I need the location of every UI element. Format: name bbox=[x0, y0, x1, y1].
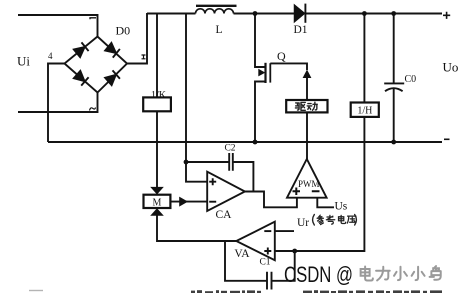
wire C2 right to CA output bbox=[233, 162, 254, 192]
wire Ui top input to bridge top bbox=[18, 15, 98, 37]
op-amp CA triangle bbox=[207, 172, 245, 211]
bridge diodes D0 bbox=[73, 42, 120, 85]
svg-text:C0: C0 bbox=[405, 74, 417, 85]
comparator PWM triangle bbox=[287, 159, 327, 198]
MOSFET channel bar bbox=[264, 63, 266, 83]
svg-text:Us: Us bbox=[335, 201, 348, 213]
node dot C2/CA input bbox=[184, 160, 189, 165]
diode top-right edge bbox=[105, 42, 120, 57]
wire VA minus input to Ur bbox=[275, 230, 294, 232]
label minus terminal bbox=[444, 138, 450, 140]
top rail right segment after D1 bbox=[306, 13, 443, 15]
label plus terminal bbox=[443, 12, 450, 19]
node dot C0 bottom on rail bbox=[391, 140, 396, 145]
bridge diamond edges D0 bbox=[65, 37, 128, 93]
bottom rail bbox=[48, 141, 442, 143]
wire VA output to multiplier bbox=[157, 216, 236, 242]
inductor L coil bbox=[196, 9, 234, 14]
wire sense line x186 from top rail to CA node bbox=[185, 14, 187, 163]
wire gate to drive arrow bbox=[270, 63, 307, 70]
wire C1 feedback right leg bbox=[272, 251, 295, 281]
drive box 驱动 bbox=[286, 100, 327, 112]
svg-text:Ui: Ui bbox=[17, 54, 30, 69]
svg-text:CSDN @: CSDN @ bbox=[284, 262, 353, 287]
svg-text:Q: Q bbox=[277, 49, 286, 63]
diode top-left edge bbox=[73, 42, 88, 57]
wire C2 left from node bbox=[186, 161, 229, 163]
svg-text:Ur: Ur bbox=[297, 217, 309, 229]
wire M output to CA minus input bbox=[170, 201, 207, 203]
inductor L core bar bbox=[196, 5, 237, 7]
svg-text:VA: VA bbox=[234, 248, 250, 260]
top rail left segment bbox=[147, 13, 196, 15]
svg-text:CA: CA bbox=[216, 209, 233, 221]
pin 1 tick bbox=[90, 18, 96, 19]
wire MOSFET source to bottom rail bbox=[255, 82, 266, 143]
wire node to CA plus input bbox=[186, 162, 207, 182]
svg-text:PWM: PWM bbox=[298, 179, 320, 189]
wire PWM minus stub to Us bbox=[317, 198, 334, 208]
label (参考电压) bbox=[313, 214, 357, 225]
node dot 1/H top bbox=[362, 11, 367, 16]
wire bridge left vertex down to bottom rail bbox=[48, 64, 65, 143]
watermark 电力小小鸟 bbox=[361, 266, 441, 280]
svg-text:4: 4 bbox=[48, 51, 53, 61]
multiplier M output right arrow bbox=[179, 197, 188, 207]
op-amp VA plus sign bbox=[264, 248, 271, 255]
op-amp CA minus sign bbox=[209, 201, 216, 203]
node dot inductor-D1-Q bbox=[253, 11, 258, 16]
divider box 1/H bbox=[351, 103, 379, 117]
diode bottom-right edge bbox=[105, 70, 120, 85]
multiplier M input down arrow bbox=[150, 187, 164, 195]
capacitor C2 plates bbox=[229, 153, 233, 171]
wire drive box to PWM apex bbox=[306, 112, 308, 159]
wire 1/H top from rail bbox=[363, 14, 365, 103]
svg-text:D0: D0 bbox=[116, 24, 131, 38]
svg-text:M: M bbox=[153, 197, 162, 208]
svg-text:Uo: Uo bbox=[443, 60, 459, 75]
pin 3 tick bbox=[90, 108, 96, 111]
svg-text:L: L bbox=[216, 24, 223, 36]
svg-text:1/K: 1/K bbox=[151, 90, 167, 101]
op-amp VA triangle bbox=[236, 222, 274, 261]
pin 2 tick bbox=[142, 55, 146, 59]
op-amp VA minus sign bbox=[264, 230, 271, 232]
wire 1/K top from rail bbox=[156, 14, 158, 98]
multiplier M input up arrow bbox=[150, 208, 164, 216]
wire 1/H bottom down to VA plus input bbox=[275, 117, 365, 251]
wire CA output to PWM plus stub bbox=[245, 192, 297, 208]
svg-text:C2: C2 bbox=[224, 144, 235, 154]
wire 1/K bottom to multiplier arrow bbox=[156, 111, 158, 187]
op-amp CA plus sign bbox=[209, 178, 216, 185]
MOSFET arrow bbox=[258, 69, 265, 77]
wire C0 branch top bbox=[393, 14, 395, 84]
wire drive arrow to drive box bbox=[306, 78, 308, 101]
svg-text:C1: C1 bbox=[259, 258, 270, 268]
diode bottom-left edge bbox=[73, 70, 88, 85]
divider box 1/K bbox=[143, 97, 171, 111]
wire C1 feedback left leg bbox=[225, 241, 267, 281]
comparator PWM plus sign bbox=[293, 188, 320, 196]
multiplier box M bbox=[144, 195, 171, 208]
wire Ui bottom input to bridge bottom bbox=[18, 93, 98, 113]
MOSFET gate bar bbox=[269, 63, 271, 82]
wire C0 branch bottom bbox=[393, 89, 395, 143]
node dot C1/VA plus bbox=[292, 249, 297, 254]
capacitor C0 top plate bbox=[384, 82, 404, 84]
wire MOSFET drain from top rail bbox=[255, 14, 266, 68]
svg-text:1/H: 1/H bbox=[357, 106, 372, 117]
top rail middle segment bbox=[234, 13, 295, 15]
wire bridge right vertex up to top rail bbox=[127, 13, 147, 64]
caption slivers at bottom edge bbox=[29, 290, 442, 293]
drive up arrow bbox=[303, 70, 312, 79]
capacitor C1 plates bbox=[267, 272, 272, 290]
svg-text:D1: D1 bbox=[294, 24, 308, 36]
node dot Q source on rail bbox=[253, 140, 258, 145]
diode D1 bbox=[295, 4, 306, 23]
capacitor C0 curved plate bbox=[385, 88, 403, 91]
node dot C0 top bbox=[391, 11, 396, 16]
